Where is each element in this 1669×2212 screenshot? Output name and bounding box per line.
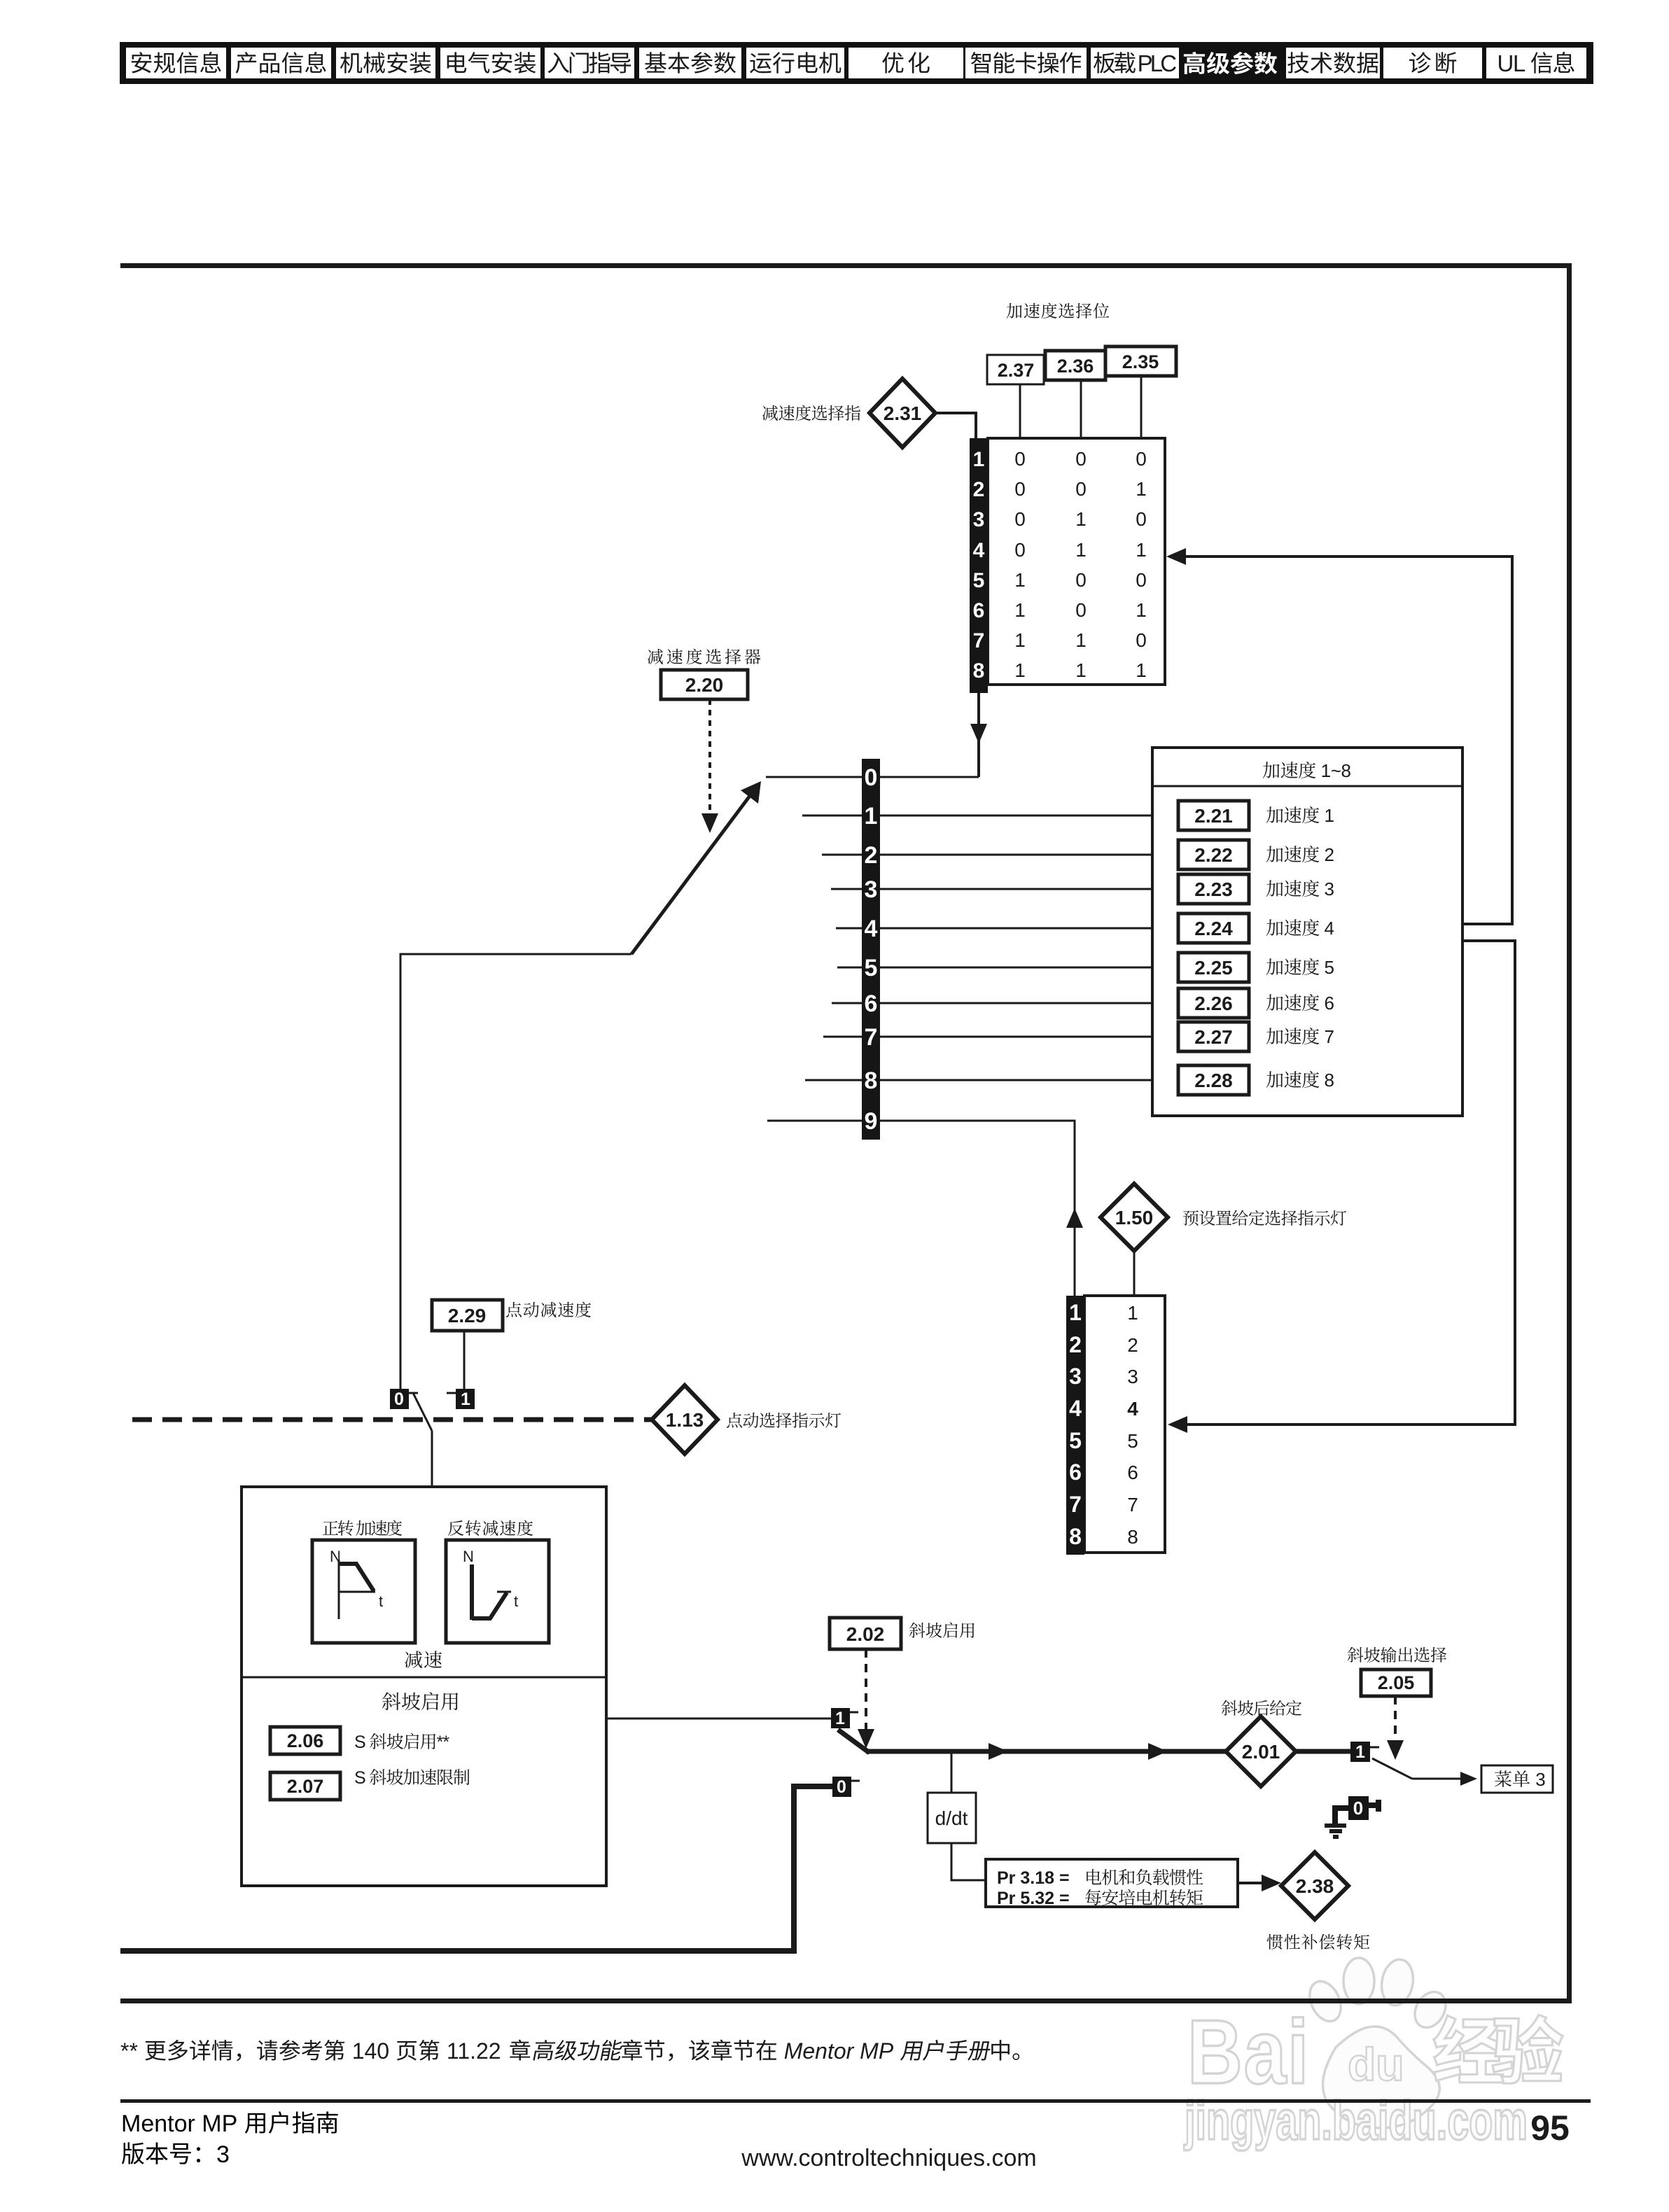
svg-text:2.26: 2.26 [1194, 993, 1233, 1014]
svg-text:www.controltechniques.com: www.controltechniques.com [741, 2145, 1036, 2171]
svg-text:t: t [514, 1592, 518, 1610]
wire to menu 3 [1412, 1778, 1465, 1780]
svg-text:2.27: 2.27 [1194, 1026, 1233, 1048]
parameter box 2.26 [1178, 988, 1249, 1018]
svg-text:1: 1 [461, 1389, 470, 1409]
diamond 1.50 [1101, 1184, 1168, 1251]
svg-text:4: 4 [973, 539, 985, 562]
svg-text:2.22: 2.22 [1194, 844, 1233, 866]
wire 2.35 to truth table [1140, 376, 1143, 438]
svg-text:3: 3 [1069, 1364, 1082, 1389]
nav tab 技术数据 [1286, 48, 1380, 78]
svg-text:6: 6 [1127, 1462, 1138, 1483]
arrowhead into menu 3 [1460, 1772, 1477, 1786]
label 斜坡启用 2.02 [909, 1623, 926, 1638]
svg-text:6: 6 [1069, 1459, 1082, 1485]
divider ramp box [242, 1676, 606, 1679]
svg-text:1: 1 [1014, 629, 1026, 651]
mux bar digits 0-9 [865, 764, 878, 1135]
nav tab 板载 PLC [1091, 48, 1179, 78]
diamond 2.01 [1226, 1716, 1296, 1786]
arrowhead truth table output [970, 724, 987, 743]
thick wire 2.01 to output [1296, 1749, 1350, 1754]
mux input wire 6 [832, 1002, 1178, 1004]
arrowhead selector arm [741, 781, 761, 804]
nav tab UL 信息 [1486, 48, 1586, 78]
mux input wire 1 [802, 815, 1178, 817]
arrowhead into preset table [1168, 1416, 1187, 1433]
label 减速度选择器 [648, 649, 663, 664]
wire Pr box to 2.38 [1238, 1882, 1269, 1884]
footer rule [120, 2099, 1591, 2103]
box 加速度 1~8 [1152, 748, 1462, 1116]
svg-text:0: 0 [1075, 599, 1087, 621]
svg-text:Pr 5.32 =: Pr 5.32 = [997, 1889, 1070, 1908]
svg-text:4: 4 [865, 916, 878, 942]
parameter box 2.22 [1178, 840, 1249, 869]
box ramp shapes [242, 1487, 606, 1886]
svg-text:2.01: 2.01 [1242, 1741, 1280, 1763]
thick wire bypass path [120, 1786, 832, 1951]
svg-text:0: 0 [865, 764, 878, 791]
switch arm ramp enable [838, 1730, 870, 1753]
nav bar [120, 42, 1593, 84]
arrowhead 2.05 [1387, 1740, 1404, 1760]
label 正转 加速度 [323, 1521, 338, 1535]
arrowhead into 2.38 [1262, 1875, 1281, 1891]
terminal 0 ramp bypass [832, 1777, 860, 1797]
svg-text:2.28: 2.28 [1194, 1070, 1233, 1091]
box 菜单 3 [1481, 1765, 1553, 1793]
frame top border [120, 263, 1572, 268]
footer version [122, 2142, 144, 2164]
preset table box [1084, 1296, 1165, 1553]
wire d/dt to Pr box [951, 1843, 986, 1880]
svg-text:1.13: 1.13 [666, 1409, 704, 1431]
mux input wire 8 [805, 1079, 1178, 1081]
svg-text:2: 2 [973, 478, 985, 501]
svg-text:d/dt: d/dt [935, 1807, 968, 1829]
svg-text:1: 1 [1136, 539, 1147, 561]
arrowhead main path 2 [1148, 1743, 1168, 1760]
truth table box [988, 438, 1165, 685]
svg-text:0: 0 [1014, 448, 1026, 470]
svg-text:Bai: Bai [1187, 2001, 1310, 2103]
svg-text:2: 2 [1127, 1334, 1138, 1356]
dashed wire 2.05 [1394, 1696, 1397, 1743]
dashed wire jog select [132, 1417, 652, 1422]
parameter box 2.36 [1045, 351, 1105, 380]
svg-text:5: 5 [1320, 957, 1334, 978]
parameter box 2.02 [830, 1618, 901, 1649]
svg-text:11.22: 11.22 [440, 2038, 507, 2064]
label 减速 [405, 1651, 422, 1668]
footnote [120, 2038, 1019, 2064]
mux input wire 9 [767, 1121, 1075, 1296]
svg-text:1.50: 1.50 [1115, 1207, 1154, 1228]
svg-text:1~8: 1~8 [1316, 760, 1351, 781]
divider accel box [1152, 785, 1462, 787]
arrowhead preset feed up [1066, 1208, 1083, 1228]
diamond 2.38 [1281, 1852, 1348, 1919]
wire to d/dt [951, 1751, 953, 1793]
label 点动减速度 [506, 1302, 522, 1317]
frame bottom border [120, 1998, 1572, 2003]
svg-text:6: 6 [865, 990, 878, 1017]
svg-text:0: 0 [1075, 569, 1087, 591]
switch arm ramp output [1372, 1758, 1412, 1779]
terminal 0 jog [390, 1389, 418, 1409]
wire 2.36 to truth table [1080, 380, 1082, 438]
parameter box 2.05 [1361, 1669, 1431, 1696]
parameter box 2.25 [1178, 953, 1249, 982]
label 惯性补偿转矩 [1267, 1934, 1283, 1949]
wire ramp box to enable switch [606, 1718, 831, 1720]
svg-text:2.29: 2.29 [448, 1305, 487, 1326]
mux input wire 0 [766, 776, 979, 778]
svg-text:6: 6 [973, 599, 985, 622]
parameter box 2.20 [661, 670, 748, 699]
terminal 1 ramp enable [831, 1708, 858, 1728]
wire selector feed [400, 954, 631, 1389]
svg-text:1: 1 [1320, 805, 1334, 826]
svg-text:0: 0 [1075, 448, 1087, 470]
svg-text:0: 0 [1353, 1798, 1363, 1819]
svg-text:7: 7 [1127, 1494, 1138, 1515]
svg-text:0: 0 [1014, 508, 1026, 530]
svg-text:S: S [354, 1732, 370, 1752]
preset select bar [1066, 1296, 1084, 1555]
terminal 1 jog [447, 1389, 475, 1409]
svg-text:S: S [354, 1768, 369, 1788]
svg-text:1: 1 [1014, 599, 1026, 621]
svg-text:0: 0 [1014, 539, 1026, 561]
svg-text:6: 6 [1320, 993, 1334, 1014]
svg-text:2.23: 2.23 [1194, 878, 1233, 900]
svg-text:0: 0 [1136, 448, 1147, 470]
wire 2.29 to jog switch [463, 1331, 466, 1389]
svg-text:3: 3 [216, 2141, 230, 2168]
svg-text:3: 3 [1530, 1769, 1546, 1790]
parameter box 2.21 [1178, 801, 1249, 830]
label 斜坡输出选择 [1348, 1647, 1364, 1662]
wire accel box feedback A [1462, 923, 1514, 925]
thick wire main path [866, 1749, 1227, 1754]
label 减速度选择指 [762, 405, 778, 421]
label 预设置给定选择指示灯 [1183, 1210, 1199, 1226]
block d/dt [928, 1793, 976, 1843]
svg-text:3: 3 [1127, 1366, 1138, 1387]
label 斜坡启用 [382, 1692, 400, 1710]
svg-text:3: 3 [973, 508, 985, 531]
label 加速度 5 [1266, 958, 1283, 975]
svg-text:Pr 3.18 =: Pr 3.18 = [997, 1868, 1070, 1888]
svg-text:1: 1 [1075, 659, 1087, 681]
wire accel box feedback B [1179, 941, 1515, 1424]
arrowhead main path 1 [989, 1743, 1008, 1760]
svg-text:0: 0 [1075, 478, 1087, 500]
parameter box 2.27 [1178, 1022, 1249, 1051]
switch arm selector [631, 793, 752, 954]
svg-text:2.37: 2.37 [998, 360, 1035, 381]
mux selector bar [862, 759, 880, 1140]
wire feedback to truth table [1179, 556, 1512, 924]
dashed wire 2.02 [865, 1649, 867, 1729]
svg-text:5: 5 [1127, 1430, 1138, 1452]
wire jog arm to ramp box [431, 1431, 433, 1488]
svg-text:4: 4 [1069, 1396, 1082, 1421]
svg-text:0: 0 [837, 1777, 846, 1797]
svg-text:1: 1 [1136, 599, 1147, 621]
svg-text:Mentor MP: Mentor MP [121, 2110, 244, 2137]
svg-text:N: N [463, 1548, 474, 1565]
svg-text:2: 2 [1320, 844, 1334, 865]
parameter box 2.23 [1178, 874, 1249, 904]
svg-text:7: 7 [1069, 1492, 1082, 1517]
svg-text:UL: UL [1497, 50, 1530, 76]
parameter box 2.35 [1105, 346, 1176, 376]
svg-text:140: 140 [346, 2038, 396, 2064]
wire truth table output [977, 693, 980, 777]
svg-text:1: 1 [865, 803, 878, 829]
svg-text:1: 1 [1075, 539, 1087, 561]
svg-text:8: 8 [1069, 1524, 1082, 1549]
nav tab 高级参数 (active) [1184, 52, 1278, 75]
diamond 2.31 [870, 379, 935, 447]
svg-text:2.05: 2.05 [1378, 1672, 1415, 1693]
svg-text:1: 1 [1136, 478, 1147, 500]
wire 2.37 to truth table [1019, 384, 1021, 438]
nav tab 机械安装 [336, 48, 435, 78]
svg-text:1: 1 [1069, 1300, 1082, 1325]
svg-text:5: 5 [865, 955, 878, 981]
svg-text:95: 95 [1530, 2108, 1570, 2148]
svg-text:3: 3 [1320, 878, 1334, 899]
graph forward accel [312, 1540, 415, 1643]
svg-text:1: 1 [1075, 629, 1087, 651]
svg-text:7: 7 [1320, 1026, 1334, 1047]
svg-text:2: 2 [865, 842, 878, 869]
svg-text:t: t [379, 1592, 383, 1610]
svg-text:4: 4 [1320, 918, 1334, 939]
svg-text:2.06: 2.06 [287, 1730, 324, 1751]
svg-text:0: 0 [1014, 478, 1026, 500]
svg-text:0: 0 [1136, 629, 1147, 651]
preset table digits 1-8 [1127, 1302, 1138, 1548]
label 加速度 3 [1266, 880, 1283, 897]
switch arm jog [413, 1393, 432, 1431]
svg-text:du: du [1348, 2038, 1404, 2090]
svg-text:8: 8 [1320, 1070, 1334, 1091]
parameter box 2.29 [432, 1300, 503, 1331]
box Pr equations [986, 1859, 1238, 1908]
svg-text:2.35: 2.35 [1122, 351, 1159, 372]
parameter box 2.24 [1178, 913, 1249, 943]
label 斜坡后给定 [1222, 1700, 1238, 1716]
nav tab 产品信息 [231, 48, 331, 78]
wire 2.31 to truth table [935, 413, 976, 438]
nav tab 安规信息 [126, 48, 226, 78]
svg-text:1: 1 [1014, 569, 1026, 591]
svg-text:**: ** [437, 1732, 450, 1752]
svg-text:**: ** [120, 2038, 144, 2064]
truth table select bar [970, 438, 988, 693]
svg-text:2.38: 2.38 [1296, 1875, 1334, 1897]
wire 1.50 to preset table [1133, 1251, 1136, 1296]
graph reverse decel [446, 1540, 549, 1643]
label 加速度 2 [1266, 846, 1283, 862]
nav tab 电气安装 [440, 48, 540, 78]
svg-text:0: 0 [1136, 508, 1147, 530]
mux input wire 4 [836, 927, 1178, 930]
svg-text:8: 8 [1127, 1526, 1138, 1548]
label 加速度 7 [1266, 1028, 1283, 1044]
svg-text:5: 5 [1069, 1428, 1082, 1453]
label 加速度 4 [1266, 919, 1283, 936]
nav tab 基本参数 [639, 48, 741, 78]
svg-text:2.31: 2.31 [884, 402, 922, 424]
svg-text:jingyan.baidu.com: jingyan.baidu.com [1184, 2089, 1528, 2151]
nav tab 智能卡操作 [965, 48, 1087, 78]
title 加速度 1~8 [1263, 762, 1280, 778]
dashed wire 2.20 [708, 699, 711, 813]
watermark baidu jingyan [1184, 1957, 1563, 2151]
svg-text:1: 1 [835, 1709, 845, 1728]
parameter box 2.28 [1178, 1065, 1249, 1095]
svg-text:8: 8 [973, 659, 985, 682]
svg-text:8: 8 [865, 1067, 878, 1094]
svg-text:2.02: 2.02 [846, 1623, 885, 1645]
label 加速度 1 [1266, 806, 1283, 823]
svg-text:Mentor MP: Mentor MP [784, 2038, 900, 2064]
ground symbol [1325, 1823, 1346, 1839]
truth table row digits 1-8 [973, 448, 985, 682]
label 反转减速度 [448, 1520, 463, 1536]
svg-text:4: 4 [1127, 1398, 1138, 1420]
svg-text:0: 0 [394, 1389, 404, 1409]
svg-text:7: 7 [865, 1024, 878, 1051]
svg-text:PLC: PLC [1133, 50, 1176, 76]
svg-text:2.36: 2.36 [1057, 356, 1094, 377]
svg-text:9: 9 [865, 1108, 878, 1135]
diamond 1.13 [652, 1385, 718, 1454]
nav tab 诊断 [1383, 48, 1482, 78]
mux input wire 3 [831, 888, 1178, 890]
label 加速度 6 [1266, 994, 1283, 1011]
svg-text:1: 1 [1136, 659, 1147, 681]
frame right border [1567, 263, 1572, 2003]
mux input wire 5 [837, 967, 1178, 969]
svg-text:1: 1 [1127, 1302, 1138, 1324]
svg-text:2.07: 2.07 [287, 1776, 324, 1797]
parameter box 2.06 [270, 1727, 340, 1754]
mux input wire 2 [822, 854, 1178, 856]
svg-text:2.20: 2.20 [685, 674, 724, 696]
parameter box 2.07 [270, 1772, 340, 1800]
svg-text:3: 3 [865, 876, 878, 903]
parameter box 2.37 [987, 355, 1044, 384]
preset bar digits 1-8 [1069, 1300, 1082, 1549]
svg-text:2.25: 2.25 [1194, 957, 1233, 979]
svg-text:0: 0 [1136, 569, 1147, 591]
arrowhead into truth table [1166, 548, 1186, 565]
svg-text:2.24: 2.24 [1194, 918, 1233, 939]
nav tab 优化 [849, 48, 963, 78]
svg-text:7: 7 [973, 629, 985, 652]
svg-text:2: 2 [1069, 1332, 1082, 1357]
label 加速度选择位 [1007, 303, 1022, 318]
svg-text:5: 5 [973, 569, 985, 592]
svg-text:1: 1 [1075, 508, 1087, 530]
arrowhead 2.02 [858, 1729, 874, 1749]
terminal 1 ramp output [1350, 1742, 1379, 1762]
arrowhead 2.20 [701, 813, 718, 833]
nav tab 运行电机 [746, 48, 844, 78]
svg-text:1: 1 [973, 448, 985, 471]
nav tab 入门指导 [545, 48, 634, 78]
label 点动选择指示灯 [727, 1413, 742, 1428]
mux input wire 7 [823, 1036, 1178, 1038]
svg-text:2.21: 2.21 [1194, 805, 1233, 827]
svg-text:1: 1 [1355, 1742, 1365, 1762]
label 加速度 8 [1266, 1071, 1283, 1088]
truth table binary values [1014, 448, 1147, 681]
terminal 0 output ground [1332, 1796, 1381, 1825]
svg-text:1: 1 [1014, 659, 1026, 681]
